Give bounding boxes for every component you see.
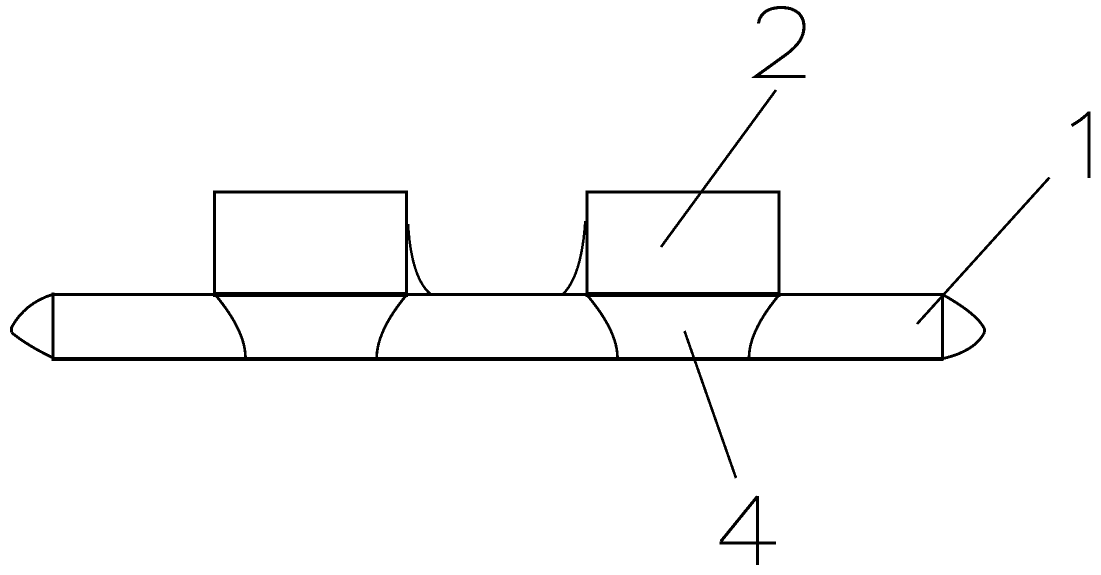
rod body top surface line [52,293,944,296]
right pointed tip upper arc [944,295,985,329]
outer fillet at right wall of block 2a [408,224,431,295]
block 2b rectangle outline [587,192,779,294]
fillet arc under block 2a left corner [216,295,246,358]
reference numeral 2 [756,8,806,77]
left pointed tip lower arc [12,333,54,358]
left pointed tip upper arc [12,295,53,328]
leader line for reference numeral 4 [685,331,737,478]
leader line for reference numeral 2 [661,90,776,247]
right pointed tip apex face [983,329,986,333]
fillet arc under block 2a right corner [377,295,407,358]
outer fillet at left wall of block 2b [563,221,586,295]
fillet arc under block 2b right corner [749,295,779,358]
block 2a bottom edge (on rod surface) [213,292,408,297]
right tip base vertical line [941,294,944,361]
left tip base vertical line [51,293,54,361]
right pointed tip lower arc [944,333,985,359]
rod body bottom surface line [52,357,944,361]
left pointed tip apex face [10,327,13,333]
block 2a rectangle outline [215,192,407,294]
leader line for reference numeral 1 [917,178,1050,325]
block 2b bottom edge (on rod surface) [586,292,781,297]
fillet arc under block 2b left corner [587,295,618,358]
reference numeral 1 [1072,112,1090,179]
reference numeral 4 [720,496,777,565]
